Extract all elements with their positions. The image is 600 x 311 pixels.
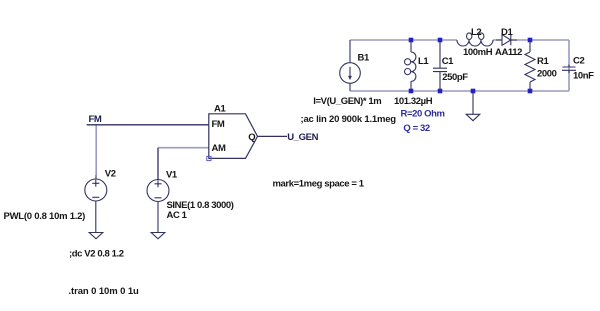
svg-text:AC 1: AC 1 [167, 210, 188, 221]
svg-text:mark=1meg space = 1: mark=1meg space = 1 [273, 178, 365, 189]
svg-text:V2: V2 [105, 169, 116, 180]
wire bottom rail [350, 90, 569, 92]
svg-text:Q: Q [248, 132, 255, 143]
svg-text:.tran 0 10m 0 1u: .tran 0 10m 0 1u [69, 286, 140, 297]
svg-text:;ac lin 20 900k 1.1meg: ;ac lin 20 900k 1.1meg [301, 114, 397, 125]
voltage source V1 [147, 180, 169, 233]
inductor L1 [405, 40, 416, 91]
svg-text:101.32µH: 101.32µH [394, 96, 433, 107]
current source B1 [340, 40, 361, 91]
svg-text:AM: AM [212, 143, 226, 154]
capacitor C1 [433, 40, 447, 91]
wire FM node vertical to V2 [95, 125, 97, 175]
junction C1 top [438, 38, 443, 43]
ground (bottom rail) [466, 91, 480, 121]
svg-text:U_GEN: U_GEN [287, 132, 318, 143]
wire right vertical (C2 branch) [568, 40, 570, 91]
svg-text:L2: L2 [471, 27, 481, 38]
svg-text:B1: B1 [358, 52, 370, 63]
modulator block A1 body [209, 114, 258, 159]
junction R1 top [528, 38, 533, 43]
svg-text:Q = 32: Q = 32 [403, 123, 429, 134]
svg-text:2000: 2000 [537, 68, 557, 79]
junction L1 top [409, 38, 414, 43]
resistor R1 [525, 40, 535, 91]
wire top rail (B1 to C2) [350, 39, 569, 41]
junction R1 bottom [528, 89, 533, 94]
voltage source V2 [85, 175, 107, 233]
capacitor C2 [562, 65, 576, 74]
svg-text:100mH: 100mH [463, 47, 493, 58]
svg-text:10nF: 10nF [573, 71, 594, 82]
svg-text:FM: FM [212, 119, 225, 130]
wire AM horizontal to A1 [158, 147, 209, 149]
inductor L2 [457, 33, 493, 46]
diode D1 [496, 35, 517, 46]
svg-text:PWL(0 0.8 10m 1.2): PWL(0 0.8 10m 1.2) [4, 211, 86, 222]
svg-text:V1: V1 [166, 170, 178, 181]
svg-text:250pF: 250pF [442, 72, 468, 83]
wire FM horizontal to A1 [87, 124, 209, 126]
svg-text:AA112: AA112 [495, 47, 522, 58]
svg-text:A1: A1 [214, 104, 226, 115]
svg-text:L1: L1 [418, 56, 429, 67]
wire V1 vertical [157, 148, 159, 180]
svg-text:R1: R1 [537, 56, 549, 67]
node A1 unconnected pin square [207, 156, 211, 160]
svg-text:C1: C1 [442, 56, 454, 67]
svg-text:R=20 Ohm: R=20 Ohm [401, 109, 445, 120]
junction ground [471, 89, 476, 94]
junction C1 bottom [438, 89, 443, 94]
svg-text:FM: FM [89, 114, 102, 125]
ground (V2) [89, 233, 103, 239]
svg-text:C2: C2 [573, 55, 584, 66]
svg-text:D1: D1 [501, 27, 513, 38]
svg-text:I=V(U_GEN)* 1m: I=V(U_GEN)* 1m [313, 96, 381, 107]
ground (V1) [151, 233, 165, 239]
svg-text:;dc V2 0.8 1.2: ;dc V2 0.8 1.2 [69, 248, 124, 259]
wire Q output (U_GEN net) [258, 135, 288, 137]
junction L1 bottom [409, 89, 414, 94]
